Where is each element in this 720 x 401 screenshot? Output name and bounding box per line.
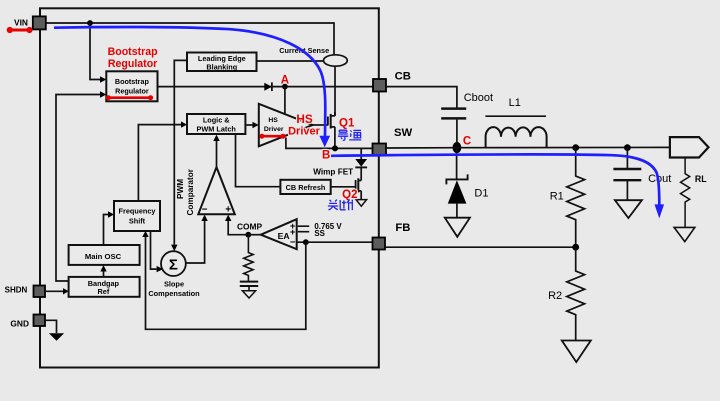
svg-text:Driver: Driver: [288, 125, 321, 137]
wire FB feedback to frequency shift: [146, 237, 306, 329]
capacitor Cout: [624, 144, 631, 151]
wire summer to PWM comparator minus: [186, 221, 205, 263]
svg-text:CB Refresh: CB Refresh: [286, 183, 326, 192]
wimp FET branch: [360, 148, 362, 159]
svg-text:R1: R1: [550, 191, 564, 203]
pin SHDN: [34, 286, 46, 298]
svg-text:Bootstrap: Bootstrap: [108, 46, 159, 58]
svg-text:PWM Latch: PWM Latch: [197, 125, 236, 134]
svg-text:SHDN: SHDN: [5, 286, 28, 295]
resistor R2: [567, 247, 585, 340]
svg-text:FB: FB: [395, 222, 410, 234]
svg-text:Blanking: Blanking: [206, 63, 237, 72]
summer circle: [161, 251, 186, 276]
svg-text:R2: R2: [548, 290, 562, 302]
wire HS driver low rail to node B: [286, 138, 373, 149]
capacitor Cboot: [441, 107, 466, 110]
svg-text:Wimp FET: Wimp FET: [313, 167, 353, 176]
ground at GND pin (solid): [49, 333, 64, 341]
svg-text:HS: HS: [268, 117, 278, 124]
blue current path 2 (SW to output): [331, 154, 659, 205]
svg-text:Cboot: Cboot: [464, 92, 493, 104]
wire FB rail: [385, 246, 576, 248]
wire VIN to bootstrap input1: [90, 23, 100, 80]
svg-text:Comparator: Comparator: [186, 168, 195, 215]
wire SHDN to bandgap: [45, 290, 63, 292]
pin VIN: [33, 16, 46, 29]
ground under RL: [674, 227, 695, 241]
VIN external red stub: [10, 29, 30, 32]
svg-text:A: A: [281, 75, 289, 87]
wimp FET body diode: [355, 159, 367, 167]
block Logic & PWM Latch: [187, 114, 245, 134]
error amp EA triangle: [261, 219, 297, 249]
current sense ellipse: [324, 55, 348, 66]
svg-text:Q1: Q1: [339, 117, 355, 129]
compensation RC on COMP: [244, 235, 253, 281]
wire frequency shift to logic: [138, 125, 181, 201]
diode on bootstrap output: [264, 83, 272, 91]
wire COMP to PWM comparator plus: [228, 221, 248, 235]
svg-text:SW: SW: [394, 127, 413, 139]
Q1 on annotation (Chinese): [338, 130, 361, 140]
wire bandgap to bootstrap input2: [56, 95, 100, 282]
red highlight segment in bootstrap box: [108, 96, 150, 99]
resistor RL: [680, 158, 689, 228]
pin SW: [373, 144, 387, 156]
svg-text:PWM: PWM: [176, 179, 185, 199]
resistor R1: [572, 144, 579, 151]
node C junction: [453, 142, 462, 153]
ground under compensation: [242, 291, 255, 298]
HS driver triangle: [259, 104, 313, 147]
output arrow: [670, 137, 709, 157]
block Leading Edge Blanking: [187, 53, 257, 72]
wire bootstrap output to CB: [158, 86, 374, 88]
pin CB: [373, 79, 386, 92]
svg-text:VIN: VIN: [14, 17, 28, 27]
svg-text:−: −: [290, 237, 296, 248]
block CB Refresh: [280, 180, 330, 194]
node A: [282, 84, 288, 90]
wire CB to Cboot: [386, 87, 457, 108]
svg-text:Ref: Ref: [98, 287, 110, 296]
block Bootstrap Regulator: [106, 71, 157, 101]
svg-text:Q2: Q2: [342, 189, 357, 201]
svg-text:Slope: Slope: [164, 279, 184, 288]
svg-text:Leading Edge: Leading Edge: [198, 54, 246, 63]
svg-text:−: −: [202, 205, 208, 216]
svg-text:Σ: Σ: [169, 256, 178, 273]
wire main OSC to frequency shift: [104, 215, 109, 246]
wire CB refresh to Q2 gate: [331, 186, 356, 188]
transistor Q2 (wimp FET): [355, 180, 357, 191]
EA reference stubs: [298, 226, 309, 232]
block Main OSC: [69, 245, 140, 265]
svg-text:EA: EA: [278, 231, 290, 241]
wire logic to CB refresh: [236, 134, 281, 187]
block Bandgap Ref: [69, 277, 140, 297]
pin FB: [373, 238, 386, 250]
svg-text:L1: L1: [509, 97, 521, 109]
svg-text:HS: HS: [296, 112, 313, 126]
Q2 off annotation (Chinese): [328, 200, 353, 211]
svg-text:Bootstrap: Bootstrap: [115, 77, 150, 86]
svg-text:Frequency: Frequency: [119, 207, 157, 216]
wire node A to HS driver: [284, 87, 286, 115]
svg-text:RL: RL: [695, 174, 707, 184]
ground under D1: [445, 218, 470, 237]
svg-text:COMP: COMP: [237, 221, 263, 231]
node B junction: [332, 145, 338, 151]
diode D1 (schottky): [456, 148, 458, 179]
svg-text:SS: SS: [314, 229, 325, 238]
IC outline box: [40, 8, 379, 367]
svg-text:Regulator: Regulator: [115, 87, 149, 96]
wire current sense to LEB: [257, 60, 324, 62]
svg-text:Compensation: Compensation: [148, 289, 200, 298]
ground under Cout: [615, 200, 642, 218]
svg-text:Main OSC: Main OSC: [85, 252, 122, 261]
blue current path 1 (VIN through Q1): [54, 27, 325, 136]
wire GND to ground: [45, 320, 57, 333]
wire PWM comparator to logic: [216, 141, 218, 167]
svg-text:+: +: [225, 205, 231, 216]
wire logic to HS driver: [245, 124, 252, 126]
node junction on VIN rail: [87, 20, 93, 26]
wire LEB to summer: [174, 60, 187, 244]
wire frequency shift to summer: [151, 231, 157, 269]
wire VIN rail: [46, 23, 334, 55]
transistor Q1: [327, 117, 329, 126]
svg-text:Shift: Shift: [129, 217, 146, 226]
svg-text:D1: D1: [474, 188, 488, 200]
pin GND: [34, 315, 46, 327]
ground under Q2: [356, 200, 367, 207]
PWM comparator triangle: [198, 167, 235, 214]
svg-text:C: C: [463, 136, 471, 148]
svg-text:CB: CB: [395, 71, 411, 83]
svg-text:GND: GND: [10, 319, 29, 329]
ground under R2: [562, 341, 591, 363]
wire EA minus to FB pin: [297, 241, 373, 243]
block Frequency Shift: [114, 201, 160, 231]
svg-text:Driver: Driver: [264, 126, 284, 133]
wire SW rail: [386, 146, 670, 149]
svg-text:Logic &: Logic &: [203, 115, 230, 124]
wire HS driver to Q1 gate: [313, 124, 328, 126]
svg-text:B: B: [322, 150, 330, 162]
svg-text:Regulator: Regulator: [108, 58, 157, 70]
red highlight segment in HS driver: [262, 135, 283, 138]
wire bandgap to main OSC: [103, 272, 105, 277]
wire current sense to Q1 drain: [334, 66, 336, 116]
